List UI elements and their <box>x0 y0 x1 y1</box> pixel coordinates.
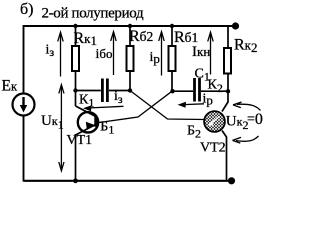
svg-text:Uк2=0: Uк2=0 <box>226 111 263 132</box>
svg-text:б): б) <box>20 1 33 18</box>
svg-text:Rк2: Rк2 <box>234 37 258 56</box>
svg-text:2-ой полупериод: 2-ой полупериод <box>42 6 144 22</box>
svg-text:iр: iр <box>150 50 160 66</box>
svg-text:Rб2: Rб2 <box>129 28 153 45</box>
svg-text:Iкн: Iкн <box>192 44 210 60</box>
svg-text:Uк1: Uк1 <box>41 113 64 132</box>
svg-text:iр: iр <box>203 92 213 108</box>
svg-text:Б2: Б2 <box>187 124 201 141</box>
svg-text:Б1: Б1 <box>100 119 114 136</box>
svg-text:iз: iз <box>114 89 123 106</box>
svg-text:Ек: Ек <box>2 78 18 95</box>
svg-text:iбо: iбо <box>96 46 113 62</box>
svg-text:VT2: VT2 <box>200 141 226 156</box>
svg-text:К1: К1 <box>79 93 94 110</box>
svg-text:VT1: VT1 <box>67 133 93 148</box>
svg-text:Rк1: Rк1 <box>74 30 98 48</box>
svg-text:iз: iз <box>46 43 55 60</box>
